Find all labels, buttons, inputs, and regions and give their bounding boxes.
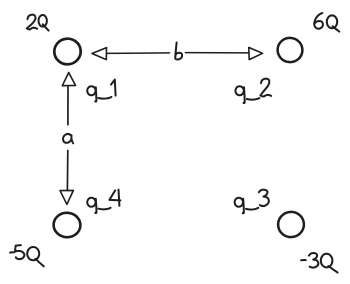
- charge circle q2 (top-right): [276, 37, 303, 64]
- arrowhead bottom of a: [60, 190, 73, 204]
- label q_1: [87, 80, 115, 102]
- label 2Q (top-left charge value): [27, 15, 49, 31]
- arrowhead right of b: [249, 47, 263, 59]
- label q_4: [87, 190, 120, 213]
- charge circle q3 (bottom-right): [277, 210, 305, 238]
- label q_2: [235, 79, 271, 103]
- label -5Q (bottom-left charge value): [10, 245, 44, 266]
- wire: horizontal double arrow b shaft: [107, 52, 250, 55]
- label a: [63, 134, 73, 143]
- arrowhead top of a: [62, 73, 75, 86]
- charge circle q4 (bottom-left): [53, 212, 81, 239]
- arrowhead left of b: [92, 48, 107, 60]
- wire: vertical double arrow a shaft: [66, 86, 69, 191]
- label -3Q (bottom-right charge value): [301, 253, 338, 273]
- charge circle q1 (top-left): [53, 37, 82, 66]
- label b: [175, 43, 182, 60]
- label q_3: [235, 190, 269, 214]
- label 6Q (top-right charge value): [314, 13, 339, 32]
